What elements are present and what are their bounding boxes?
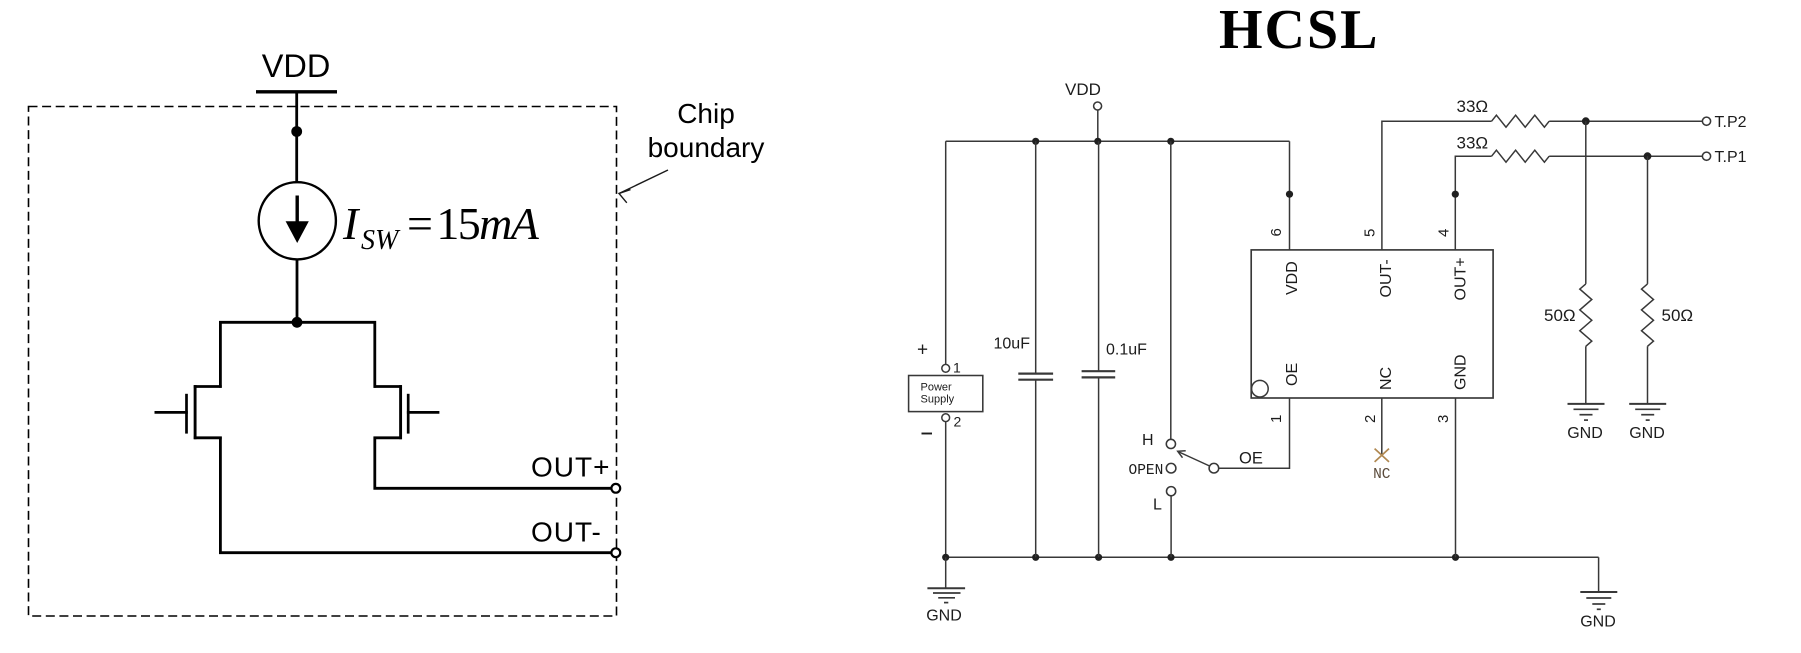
svg-text:0.1uF: 0.1uF xyxy=(1106,342,1147,359)
bottom ground bus xyxy=(946,556,1599,558)
switch contact L xyxy=(1167,487,1176,496)
terminal OUT- xyxy=(611,548,620,557)
wire to left GND xyxy=(945,557,947,588)
svg-text:H: H xyxy=(1142,432,1154,449)
junction dots on bottom bus xyxy=(942,554,949,561)
rail over transistors xyxy=(220,322,374,388)
svg-text:I: I xyxy=(342,198,361,249)
svg-text:OUT-: OUT- xyxy=(531,517,602,548)
switch contact H xyxy=(1166,439,1175,448)
svg-text:2: 2 xyxy=(954,414,962,430)
resistor 33ohm bottom xyxy=(1492,150,1550,162)
svg-text:5: 5 xyxy=(1362,229,1379,237)
svg-text:Chip: Chip xyxy=(677,98,735,129)
svg-text:NC: NC xyxy=(1373,467,1391,483)
svg-text:L: L xyxy=(1153,497,1162,514)
svg-text:T.P1: T.P1 xyxy=(1715,149,1747,166)
terminal T.P2 xyxy=(1702,117,1710,125)
wire M2 source to OUT+ xyxy=(375,437,612,489)
svg-text:GND: GND xyxy=(1453,354,1470,390)
svg-text:2: 2 xyxy=(1362,415,1379,423)
svg-text:OUT+: OUT+ xyxy=(531,452,610,483)
current source I_SW circle xyxy=(259,182,336,259)
ground symbol bottom-left xyxy=(927,587,965,589)
resistor 50ohm left xyxy=(1580,284,1592,346)
wire pin 3 to bottom bus xyxy=(1455,398,1457,557)
wire pin 4 to resistor xyxy=(1455,156,1491,250)
svg-text:NC: NC xyxy=(1378,367,1395,390)
junction dot T.P2 line xyxy=(1582,117,1590,125)
svg-text:Power: Power xyxy=(921,382,953,394)
wire power supply to bottom bus xyxy=(945,422,947,558)
svg-text:1: 1 xyxy=(953,360,961,376)
svg-text:3: 3 xyxy=(1435,415,1452,423)
wire VDD to bus xyxy=(1097,110,1099,141)
svg-text:GND: GND xyxy=(1629,425,1665,442)
pin 1 inversion bubble xyxy=(1252,380,1269,397)
wire pin 5 to resistor xyxy=(1382,121,1492,250)
wire VDD to current source xyxy=(295,92,298,183)
svg-text:1: 1 xyxy=(1268,415,1285,423)
svg-text:33Ω: 33Ω xyxy=(1457,97,1489,116)
svg-text:4: 4 xyxy=(1435,229,1452,237)
pointer arrow to boundary xyxy=(619,170,668,194)
minus label xyxy=(922,433,933,435)
resistor 33ohm top xyxy=(1492,115,1550,127)
wire resistor to T.P1 xyxy=(1549,155,1702,157)
junction dot T.P1 line xyxy=(1644,152,1652,160)
junction dot at rail xyxy=(292,317,303,328)
svg-text:OUT+: OUT+ xyxy=(1453,257,1470,300)
wire bus elbow to right GND xyxy=(1598,557,1600,592)
wire M1 source to OUT- xyxy=(220,437,611,553)
svg-text:=15mA: =15mA xyxy=(407,198,540,249)
resistor 50ohm right xyxy=(1642,284,1654,346)
no-connect X mark xyxy=(1375,449,1389,462)
wire 50ohm right to GND xyxy=(1647,346,1649,404)
ground symbol bottom-right xyxy=(1580,591,1617,593)
svg-text:GND: GND xyxy=(926,608,962,625)
terminal T.P1 xyxy=(1702,152,1710,160)
wire L contact to bottom bus xyxy=(1170,496,1172,558)
svg-text:50Ω: 50Ω xyxy=(1544,306,1576,325)
wire pin 6 to bus xyxy=(1289,141,1291,250)
wire left rail to power supply xyxy=(945,141,947,364)
svg-text:SW: SW xyxy=(361,225,401,256)
junction dots on top bus xyxy=(1032,138,1039,145)
wire T.P2 junction down to 50ohm xyxy=(1585,121,1587,284)
wire current source to rail xyxy=(296,259,299,323)
switch contact OPEN xyxy=(1166,463,1176,473)
svg-text:OUT-: OUT- xyxy=(1378,259,1395,297)
switch common pole circle xyxy=(1209,463,1219,473)
svg-text:+: + xyxy=(917,340,928,361)
svg-text:50Ω: 50Ω xyxy=(1662,306,1694,325)
top VDD bus xyxy=(946,140,1290,142)
svg-text:GND: GND xyxy=(1580,614,1616,631)
capacitor 0.1uF xyxy=(1098,141,1100,371)
svg-text:VDD: VDD xyxy=(262,48,331,84)
svg-text:GND: GND xyxy=(1567,425,1603,442)
terminal OUT+ xyxy=(611,484,620,493)
power supply pin 2 circle xyxy=(942,414,950,422)
ground symbol right 50ohm xyxy=(1629,403,1666,405)
svg-text:OE: OE xyxy=(1239,450,1263,468)
switch arm with arrow xyxy=(1179,452,1210,466)
svg-text:boundary: boundary xyxy=(648,132,765,163)
transistor M2 (right) xyxy=(374,385,402,388)
junction dot pin 4 wire xyxy=(1452,191,1459,198)
svg-text:VDD: VDD xyxy=(1065,80,1101,99)
VDD terminal circle xyxy=(1094,102,1102,110)
svg-text:HCSL: HCSL xyxy=(1219,0,1380,61)
ground symbol left 50ohm xyxy=(1568,403,1605,405)
wire 50ohm left to GND xyxy=(1585,346,1587,404)
junction dot below VDD xyxy=(291,126,302,137)
power supply pin 1 circle xyxy=(942,364,950,372)
VDD supply bar xyxy=(256,90,337,93)
svg-text:Supply: Supply xyxy=(921,394,955,406)
transistor M1 (left) xyxy=(194,385,222,388)
svg-text:OPEN: OPEN xyxy=(1129,463,1164,479)
svg-text:33Ω: 33Ω xyxy=(1457,134,1489,153)
junction dot pin 6 wire xyxy=(1286,191,1293,198)
svg-text:T.P2: T.P2 xyxy=(1715,114,1747,131)
svg-text:VDD: VDD xyxy=(1284,261,1301,295)
svg-text:OE: OE xyxy=(1284,363,1301,386)
current source arrow xyxy=(296,196,299,229)
power supply box xyxy=(909,376,983,412)
wire resistor to T.P2 xyxy=(1549,120,1702,122)
chip boundary dashed box xyxy=(29,107,617,617)
IC box xyxy=(1251,250,1493,398)
wire switch pole to OE pin 1 xyxy=(1219,398,1290,468)
svg-text:6: 6 xyxy=(1268,228,1285,236)
capacitor 10uF xyxy=(1035,141,1037,373)
wire T.P1 junction down to 50ohm xyxy=(1647,156,1649,284)
wire bus to switch H xyxy=(1170,141,1172,439)
svg-text:10uF: 10uF xyxy=(994,336,1031,353)
wire pin 2 stub xyxy=(1381,398,1383,454)
